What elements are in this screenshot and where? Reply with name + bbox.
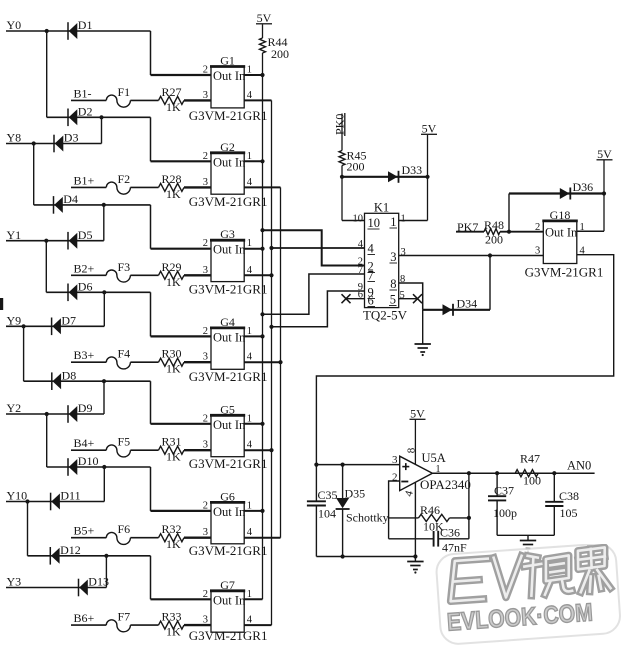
wire G6 pin 1 to 5V rail bbox=[244, 510, 262, 512]
diode D2 bbox=[68, 109, 77, 127]
ground (C37/C38) bbox=[520, 541, 536, 549]
svg-text:D9: D9 bbox=[78, 401, 93, 415]
diode D7 bbox=[52, 318, 61, 336]
svg-text:5V: 5V bbox=[422, 122, 437, 136]
wire C38 to bottom bbox=[553, 506, 555, 535]
wire op-amp pin 4 to bottom rail bbox=[414, 483, 416, 557]
svg-text:AN0: AN0 bbox=[567, 459, 591, 473]
capacitor C37 bbox=[488, 496, 506, 500]
svg-text:Y8: Y8 bbox=[7, 131, 22, 145]
svg-text:D3: D3 bbox=[64, 131, 79, 145]
wire 5V rail vertical bbox=[262, 53, 264, 599]
wire G18 pin 1 to 5V bbox=[577, 230, 604, 232]
wire R31 to G5 pin 3 bbox=[184, 449, 211, 451]
svg-text:C38: C38 bbox=[559, 489, 579, 503]
wire Y9 vertical to D8 bbox=[23, 326, 25, 381]
fuse F2 bbox=[106, 182, 130, 194]
svg-text:F7: F7 bbox=[118, 610, 131, 624]
junction Y0 bbox=[45, 29, 49, 33]
junction D10/D11 bbox=[102, 465, 106, 469]
junction V1/K1 pin9 bbox=[269, 325, 273, 329]
wire G3 pin 4 bbox=[244, 274, 271, 276]
ground (op-amp) bbox=[407, 562, 423, 570]
svg-text:B3+: B3+ bbox=[74, 348, 95, 362]
capacitor C35 bbox=[307, 501, 326, 505]
svg-text:G3VM-21GR1: G3VM-21GR1 bbox=[189, 369, 268, 384]
wire Y0 vertical to D2 bbox=[46, 31, 48, 117]
svg-text:Out In: Out In bbox=[213, 505, 246, 519]
wire D10 down to G6 pin2 bbox=[150, 467, 152, 511]
opto relay G4 G3VM-21GR1 bbox=[210, 328, 246, 369]
junction rail/K1 pin2 wire bbox=[260, 228, 264, 232]
svg-text:2: 2 bbox=[203, 589, 208, 600]
resistor R45 bbox=[339, 151, 345, 166]
wire D34 row bbox=[423, 309, 490, 311]
wire D6 down to G4 pin2 bbox=[150, 292, 152, 336]
wire R45 to D33 row bbox=[341, 166, 343, 177]
wire bottom rail (op-amp gnd) bbox=[316, 556, 415, 558]
svg-text:4: 4 bbox=[247, 352, 253, 363]
wire D4 down to G3 pin2 bbox=[150, 205, 152, 249]
junction rail/G5 pin1 bbox=[260, 422, 264, 426]
svg-text:U5A: U5A bbox=[422, 451, 446, 465]
wire down to K1 pin 10 bbox=[341, 177, 343, 221]
capacitor C38 bbox=[545, 502, 563, 506]
junction K1 pin3 / D34 net bbox=[488, 253, 492, 257]
wire F6 to R32 bbox=[130, 537, 158, 539]
svg-text:3: 3 bbox=[535, 246, 540, 257]
svg-text:3: 3 bbox=[203, 615, 208, 626]
no-connect X at K1 pin 6 bbox=[342, 294, 351, 303]
watermark EV shijie / evlook.com bbox=[425, 544, 623, 650]
svg-text:Y10: Y10 bbox=[7, 489, 28, 503]
svg-text:B6+: B6+ bbox=[74, 611, 95, 625]
wire F3 to R29 bbox=[130, 274, 158, 276]
svg-text:K1: K1 bbox=[374, 201, 389, 215]
wire to C37 bbox=[496, 473, 498, 496]
wire PK0 to R45 bbox=[341, 114, 343, 151]
junction 5V/D36 bbox=[602, 191, 606, 195]
wire C37 to bottom bbox=[496, 500, 498, 535]
wire D12 row bbox=[28, 555, 151, 557]
wire R32 to G6 pin 3 bbox=[184, 537, 211, 539]
svg-text:R33: R33 bbox=[162, 610, 182, 624]
svg-text:4: 4 bbox=[247, 265, 253, 276]
relay K1 TQ2-5V bbox=[365, 213, 399, 307]
wire B3+ row bbox=[71, 361, 106, 363]
wire 5V to op-amp pin 8 bbox=[414, 420, 416, 465]
svg-text:G18: G18 bbox=[550, 208, 571, 222]
svg-text:1: 1 bbox=[247, 413, 252, 424]
wire D13 up to D12 row bbox=[105, 556, 107, 588]
junction D35 branch bbox=[341, 463, 345, 467]
wire D8 down to G5 pin2 bbox=[150, 381, 152, 424]
junction G4 pin 4 bbox=[278, 360, 282, 364]
no-connect X at K1 pin 5 bbox=[413, 294, 422, 303]
wire AN0 underline (none) bbox=[565, 474, 595, 476]
svg-text:R28: R28 bbox=[162, 172, 182, 186]
wire G7 pin 1 to 5V rail bbox=[244, 598, 262, 600]
junction rail/G6 pin1 bbox=[260, 509, 264, 513]
junction V1/K1 pin4 bbox=[269, 246, 273, 250]
wire D12 down to G7 pin2 bbox=[150, 556, 152, 600]
resistor R30 bbox=[159, 358, 185, 366]
wire Y1 vertical to D6 bbox=[45, 241, 47, 293]
svg-text:G3: G3 bbox=[220, 227, 235, 241]
svg-text:4: 4 bbox=[247, 90, 253, 101]
junction Y10 bbox=[25, 499, 29, 503]
wire C35 to bottom rail bbox=[315, 506, 317, 557]
wire Y10 row bbox=[6, 501, 104, 503]
junction feedback bbox=[467, 471, 471, 475]
svg-text:G3VM-21GR1: G3VM-21GR1 bbox=[189, 628, 268, 643]
svg-text:R30: R30 bbox=[162, 347, 182, 361]
svg-text:TQ2-5V: TQ2-5V bbox=[363, 308, 408, 323]
wire F5 to R31 bbox=[130, 449, 158, 451]
junction D8/D9 bbox=[102, 379, 106, 383]
svg-text:1: 1 bbox=[247, 589, 252, 600]
wire B6+ row bbox=[71, 624, 106, 626]
svg-text:Out In: Out In bbox=[213, 69, 246, 83]
wire Y2 vertical to D10 bbox=[46, 414, 48, 467]
svg-text:1K: 1K bbox=[166, 537, 181, 551]
svg-text:2: 2 bbox=[203, 500, 208, 511]
junction D36 branch bbox=[507, 230, 511, 234]
svg-text:1: 1 bbox=[247, 238, 252, 249]
svg-text:G3VM-21GR1: G3VM-21GR1 bbox=[189, 194, 268, 209]
svg-text:200: 200 bbox=[347, 160, 365, 174]
diode D3 bbox=[54, 135, 63, 153]
wire D4 row bbox=[34, 204, 151, 206]
svg-text:G3VM-21GR1: G3VM-21GR1 bbox=[189, 108, 268, 123]
wire F1 to R27 bbox=[130, 99, 158, 101]
junction D4/D5 bbox=[102, 203, 106, 207]
wire Y8 vertical to D4 bbox=[33, 144, 35, 205]
wire K1 pin 8 down bbox=[399, 283, 423, 310]
diode D10 bbox=[68, 458, 77, 476]
wire feedback vertical bbox=[468, 473, 470, 539]
resistor R27 bbox=[159, 96, 185, 104]
svg-text:4: 4 bbox=[247, 440, 253, 451]
wire Y2 row bbox=[6, 413, 104, 415]
svg-text:3: 3 bbox=[203, 177, 208, 188]
junction 5V/D33 bbox=[425, 175, 429, 179]
junction rail/G4 pin1 bbox=[260, 334, 264, 338]
svg-text:F3: F3 bbox=[118, 260, 131, 274]
svg-text:Y2: Y2 bbox=[7, 401, 22, 415]
wire to G2 pin 2 bbox=[151, 160, 212, 162]
wire B1+ row bbox=[71, 186, 106, 188]
svg-text:Y9: Y9 bbox=[7, 314, 22, 328]
svg-text:G3VM-21GR1: G3VM-21GR1 bbox=[525, 265, 604, 280]
capacitor C36 bbox=[434, 531, 439, 547]
wire G5 pin 4 bbox=[244, 449, 271, 451]
svg-text:R48: R48 bbox=[484, 218, 504, 232]
svg-text:8: 8 bbox=[390, 277, 396, 291]
svg-text:10: 10 bbox=[353, 214, 364, 225]
ground (below K1) bbox=[415, 344, 431, 352]
svg-text:D2: D2 bbox=[78, 105, 93, 119]
svg-text:F1: F1 bbox=[118, 85, 131, 99]
svg-text:1: 1 bbox=[247, 151, 252, 162]
svg-text:Out In: Out In bbox=[213, 593, 246, 607]
svg-text:Out In: Out In bbox=[213, 418, 246, 432]
wire op-amp + input row bbox=[316, 464, 399, 466]
wire Y0 row bbox=[6, 30, 151, 32]
svg-text:1: 1 bbox=[247, 326, 252, 337]
wire D2 down to G2 pin2 bbox=[150, 117, 152, 161]
fuse F7 bbox=[106, 620, 130, 632]
svg-text:D12: D12 bbox=[60, 543, 81, 557]
wire R27 to G1 pin 3 bbox=[184, 99, 211, 101]
resistor R47 bbox=[515, 470, 538, 477]
wire G3 pin 1 to 5V rail bbox=[244, 248, 262, 250]
wire G1 pin 4 bbox=[244, 99, 271, 101]
svg-text:OPA2340: OPA2340 bbox=[420, 477, 471, 492]
svg-text:8: 8 bbox=[406, 447, 418, 453]
svg-text:D35: D35 bbox=[345, 487, 366, 501]
wire G1 pin 1 to 5V rail bbox=[244, 74, 262, 76]
svg-text:6: 6 bbox=[368, 294, 374, 308]
svg-text:1: 1 bbox=[247, 65, 252, 76]
svg-text:G7: G7 bbox=[220, 578, 235, 592]
wire to K1 pin 10 bbox=[342, 220, 365, 222]
diode D5 bbox=[68, 232, 77, 250]
wire R46 to feedback bbox=[450, 517, 469, 519]
wire R48 to G18 pin 2 bbox=[500, 231, 543, 233]
svg-text:4: 4 bbox=[247, 615, 253, 626]
svg-text:3: 3 bbox=[390, 250, 396, 264]
junction D6/D7 bbox=[102, 290, 106, 294]
wire D1 down to G1 pin2 bbox=[150, 31, 152, 75]
wire D33 row bbox=[342, 176, 428, 178]
svg-text:Y1: Y1 bbox=[7, 228, 22, 242]
junction Y1 bbox=[44, 239, 48, 243]
svg-text:5: 5 bbox=[390, 293, 396, 307]
wire Y9 row bbox=[6, 325, 104, 327]
diode D36 bbox=[560, 188, 571, 200]
wire to G1 pin 2 bbox=[151, 74, 212, 76]
wire D2 row bbox=[47, 116, 151, 118]
svg-text:D11: D11 bbox=[60, 489, 80, 503]
svg-text:2: 2 bbox=[203, 238, 208, 249]
svg-text:F4: F4 bbox=[118, 347, 131, 361]
junction D35/bottom rail bbox=[341, 554, 345, 558]
junction Y2 bbox=[45, 412, 49, 416]
diode D4 bbox=[54, 196, 63, 214]
wire C37/C38 bottom row bbox=[497, 534, 554, 536]
opto relay G7 G3VM-21GR1 bbox=[210, 591, 246, 632]
resistor R46 bbox=[419, 514, 450, 521]
wire R30 to G4 pin 3 bbox=[184, 361, 211, 363]
resistor R28 bbox=[159, 183, 185, 191]
junction rail/G3 pin1 bbox=[260, 247, 264, 251]
svg-text:104: 104 bbox=[318, 507, 336, 521]
wire D7 up to D6 row bbox=[103, 292, 105, 326]
svg-text:D10: D10 bbox=[78, 454, 99, 468]
diode D8 bbox=[52, 372, 61, 390]
svg-text:G3VM-21GR1: G3VM-21GR1 bbox=[189, 543, 268, 558]
wire down to D35 bbox=[342, 465, 344, 498]
svg-text:F2: F2 bbox=[118, 172, 131, 186]
wire D34 up to pin3 net bbox=[489, 256, 491, 310]
wire G2 pin 4 bbox=[244, 186, 280, 188]
svg-text:G1: G1 bbox=[220, 54, 235, 68]
svg-text:B5+: B5+ bbox=[74, 524, 95, 538]
svg-text:3: 3 bbox=[203, 440, 208, 451]
wire Y1 row bbox=[6, 240, 104, 242]
svg-text:G3VM-21GR1: G3VM-21GR1 bbox=[189, 456, 268, 471]
svg-text:R29: R29 bbox=[162, 260, 182, 274]
wire C36 row left bbox=[389, 538, 434, 540]
wire to ground bbox=[414, 557, 416, 562]
svg-text:D8: D8 bbox=[62, 368, 77, 382]
svg-text:3: 3 bbox=[203, 265, 208, 276]
svg-text:2: 2 bbox=[203, 413, 208, 424]
svg-text:B4+: B4+ bbox=[74, 436, 95, 450]
svg-text:1K: 1K bbox=[166, 450, 181, 464]
svg-text:5V: 5V bbox=[257, 11, 272, 25]
junction C38 bbox=[552, 471, 556, 475]
junction C37 bbox=[495, 471, 499, 475]
wire D11 up to D10 row bbox=[103, 467, 105, 502]
svg-text:D4: D4 bbox=[63, 192, 78, 206]
diode D34 bbox=[443, 304, 454, 316]
underline PK0 bbox=[344, 113, 346, 136]
opto relay G2 G3VM-21GR1 bbox=[210, 153, 246, 194]
svg-text:Schottky: Schottky bbox=[346, 511, 389, 525]
svg-text:1K: 1K bbox=[166, 187, 181, 201]
svg-text:D34: D34 bbox=[457, 297, 478, 311]
wire V1 to K1 pin 4 bbox=[272, 247, 365, 249]
resistor R31 bbox=[159, 446, 185, 454]
wire to G4 pin 2 bbox=[151, 335, 212, 337]
wire to G7 pin 2 bbox=[151, 598, 212, 600]
wire K1 pin 3 to G18 pin 3 bbox=[399, 255, 544, 257]
wire G4 pin 1 to 5V rail bbox=[244, 335, 262, 337]
wire D8 row bbox=[24, 380, 151, 382]
svg-text:Out In: Out In bbox=[545, 226, 578, 240]
svg-text:7: 7 bbox=[368, 269, 374, 283]
wire Y10 vertical to D12 bbox=[27, 502, 29, 556]
svg-text:C35: C35 bbox=[318, 488, 338, 502]
diode D6 bbox=[68, 284, 77, 302]
scan artifact mark at left edge bbox=[0, 298, 3, 310]
svg-text:3: 3 bbox=[401, 247, 406, 258]
wire net V2 vertical (G2/G4/G6 pin4) bbox=[280, 187, 282, 537]
svg-text:R27: R27 bbox=[162, 85, 182, 99]
wire B4+ row bbox=[71, 449, 106, 451]
wire F2 to R28 bbox=[130, 186, 158, 188]
wire D5 up to D4 row bbox=[103, 205, 105, 241]
wire D6 row bbox=[46, 291, 150, 293]
svg-text:200: 200 bbox=[271, 47, 289, 61]
wire down to C35 bbox=[315, 465, 317, 502]
junction D2/D3 bbox=[99, 115, 103, 119]
svg-text:1K: 1K bbox=[166, 625, 181, 639]
wire K1 pin 5 stub bbox=[399, 298, 417, 300]
svg-text:1K: 1K bbox=[166, 362, 181, 376]
resistor R29 bbox=[159, 271, 185, 279]
svg-text:G3VM-21GR1: G3VM-21GR1 bbox=[189, 282, 268, 297]
wire Y3 row bbox=[6, 587, 106, 589]
wire D9 up to D8 row bbox=[103, 381, 105, 414]
wire R33 to G7 pin 3 bbox=[184, 624, 211, 626]
wire 5V to R44 bbox=[262, 25, 264, 39]
junction rail/G1 pin1 bbox=[260, 73, 264, 77]
wire R28 to G2 pin 3 bbox=[184, 186, 211, 188]
wire to K1 pin 1 bbox=[399, 220, 428, 222]
wire G4 pin 4 bbox=[244, 361, 280, 363]
wire to G6 pin 2 bbox=[151, 510, 212, 512]
junction G3 pin 4 bbox=[269, 273, 273, 277]
svg-text:2: 2 bbox=[535, 222, 540, 233]
svg-text:G2: G2 bbox=[220, 140, 235, 154]
wire K1 pin 7 to 5V rail bbox=[263, 274, 365, 314]
svg-text:5V: 5V bbox=[410, 407, 425, 421]
svg-text:C36: C36 bbox=[440, 526, 460, 540]
wire B5+ row bbox=[71, 537, 106, 539]
wire op-amp pin2 feedback left bbox=[389, 481, 400, 539]
svg-text:1K: 1K bbox=[166, 275, 181, 289]
wire 5V down to G18 pin 1 bbox=[603, 160, 605, 231]
svg-text:D7: D7 bbox=[61, 314, 76, 328]
wire D3 up to D2 row bbox=[101, 117, 103, 143]
svg-text:D36: D36 bbox=[573, 180, 594, 194]
svg-text:2: 2 bbox=[203, 65, 208, 76]
svg-text:2: 2 bbox=[203, 326, 208, 337]
svg-text:1K: 1K bbox=[166, 100, 181, 114]
wire B2+ row bbox=[71, 274, 106, 276]
svg-text:2: 2 bbox=[203, 151, 208, 162]
wire 5V rail to K1 pin 2 bbox=[263, 230, 365, 265]
opto relay G3 G3VM-21GR1 bbox=[210, 240, 246, 281]
svg-text:G6: G6 bbox=[220, 489, 235, 503]
wire Y8 row bbox=[6, 143, 102, 145]
fuse F5 bbox=[106, 445, 130, 457]
opto relay G1 G3VM-21GR1 bbox=[210, 67, 246, 108]
svg-text:3: 3 bbox=[203, 527, 208, 538]
junction Y9 bbox=[22, 324, 26, 328]
svg-text:Y3: Y3 bbox=[7, 575, 22, 589]
resistor R48 bbox=[484, 229, 500, 235]
svg-text:3: 3 bbox=[203, 352, 208, 363]
wire G18 pin 4 to op-amp input node bbox=[316, 255, 613, 465]
wire R29 to G3 pin 3 bbox=[184, 274, 211, 276]
op-amp + symbol bbox=[402, 463, 409, 470]
wire net V1 vertical (G1/G3/G5/G7 pin4) bbox=[271, 100, 273, 625]
junction pin4/ground bbox=[413, 554, 417, 558]
junction G5 pin 4 bbox=[269, 448, 273, 452]
wire to G3 pin 2 bbox=[151, 248, 212, 250]
junction D12/D13 bbox=[104, 554, 108, 558]
opto relay G18 G3VM-21GR1 bbox=[542, 221, 578, 264]
svg-text:D6: D6 bbox=[78, 280, 93, 294]
svg-text:B1-: B1- bbox=[74, 86, 92, 100]
svg-text:G4: G4 bbox=[220, 315, 235, 329]
svg-text:3: 3 bbox=[392, 454, 398, 466]
op-amp - symbol bbox=[401, 481, 408, 483]
svg-text:4: 4 bbox=[247, 527, 253, 538]
wire G7 pin 4 bbox=[244, 624, 271, 626]
wire to ground stub bbox=[527, 535, 529, 540]
diode D11 bbox=[51, 493, 60, 511]
wire op-amp output row bbox=[432, 472, 594, 474]
diode D35 (Schottky) bbox=[336, 498, 350, 509]
diode D12 bbox=[50, 547, 59, 565]
svg-text:4: 4 bbox=[368, 242, 375, 256]
svg-text:R31: R31 bbox=[162, 435, 182, 449]
